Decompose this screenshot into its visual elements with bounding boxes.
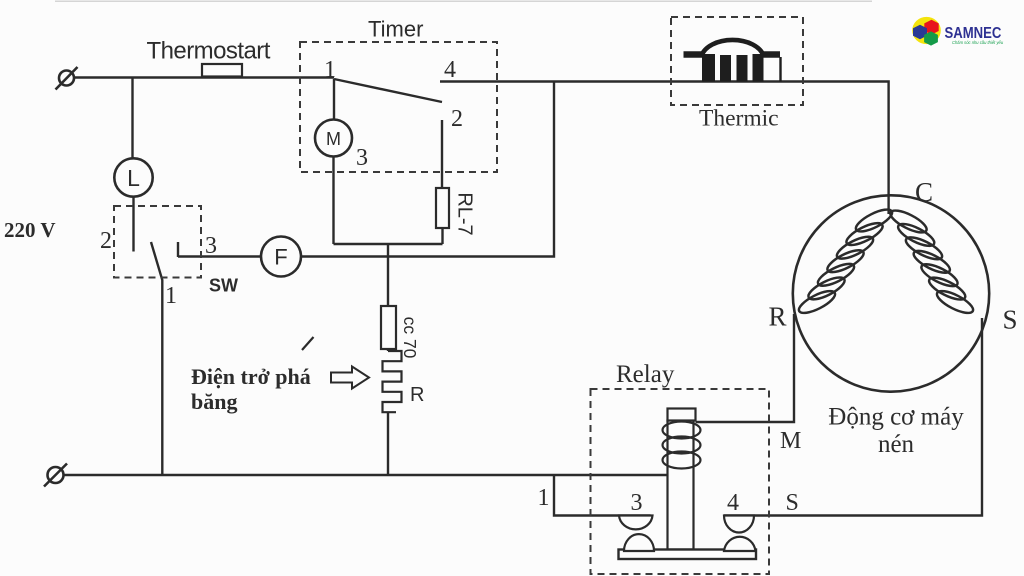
svg-text:Điện trở phá: Điện trở phá [191, 364, 311, 389]
svg-text:1: 1 [165, 283, 177, 309]
svg-text:Chăm sóc nhu cầu thiết yếu: Chăm sóc nhu cầu thiết yếu [952, 40, 1004, 45]
svg-text:nén: nén [878, 431, 915, 458]
svg-text:SW: SW [209, 276, 238, 296]
svg-text:S: S [1003, 305, 1018, 335]
svg-text:băng: băng [191, 389, 237, 414]
svg-text:Relay: Relay [616, 361, 675, 388]
svg-text:R: R [410, 384, 424, 406]
svg-text:M: M [780, 428, 801, 454]
svg-text:C: C [915, 177, 933, 207]
svg-text:Timer: Timer [368, 17, 423, 42]
svg-text:F: F [274, 245, 287, 270]
svg-text:3: 3 [631, 490, 643, 516]
svg-text:1: 1 [324, 57, 336, 83]
svg-text:RL-7: RL-7 [454, 192, 476, 235]
svg-text:4: 4 [444, 57, 456, 83]
svg-text:cc 70: cc 70 [400, 317, 420, 359]
svg-text:Động cơ máy: Động cơ máy [828, 404, 964, 431]
svg-text:S: S [786, 490, 799, 516]
svg-text:3: 3 [356, 145, 368, 171]
svg-text:220 V: 220 V [4, 218, 56, 242]
svg-text:Thermostart: Thermostart [147, 38, 271, 65]
svg-text:2: 2 [100, 228, 112, 254]
svg-text:4: 4 [727, 490, 739, 516]
svg-text:Thermic: Thermic [699, 106, 779, 132]
svg-text:3: 3 [205, 233, 217, 259]
svg-text:2: 2 [451, 106, 463, 132]
svg-text:M: M [326, 129, 341, 149]
svg-text:R: R [769, 302, 787, 332]
svg-text:1: 1 [538, 485, 550, 511]
svg-text:L: L [127, 165, 140, 191]
